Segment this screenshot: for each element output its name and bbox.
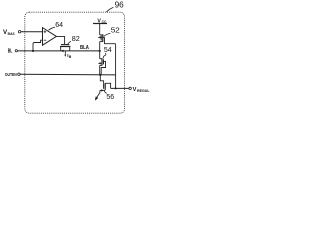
wire 54 source down to OUTEN node xyxy=(99,65,101,74)
wire BL (runs to transistor 82 and node BLA riser) xyxy=(18,50,100,52)
wire feedback to op-amp minus input xyxy=(33,40,42,51)
wire op-amp output to gate of 82 xyxy=(56,36,64,44)
terminal VREGUL xyxy=(129,87,150,93)
svg-text:BIAS: BIAS xyxy=(8,32,15,36)
power VCC xyxy=(93,18,107,24)
svg-text:V: V xyxy=(133,87,137,93)
transistor Q52 xyxy=(98,34,105,42)
wire 54 gate jog to OUTEN node xyxy=(101,61,105,74)
svg-text:B: B xyxy=(69,55,72,59)
label 56 xyxy=(104,91,114,101)
terminal BL xyxy=(8,48,18,54)
svg-text:REGUL: REGUL xyxy=(137,89,150,93)
wire VREGUL output xyxy=(111,87,129,89)
svg-text:BL: BL xyxy=(8,48,13,54)
dashed block boundary 96 xyxy=(25,12,125,113)
wire VBIAS to op-amp plus input xyxy=(21,31,43,33)
transistor Q54 xyxy=(98,58,104,65)
svg-text:64: 64 xyxy=(55,22,63,29)
terminal VBIAS xyxy=(3,29,21,36)
junction node BL / feedback xyxy=(32,50,34,52)
wire node BLA down to 54 xyxy=(99,51,101,59)
wire 52 source loop to right rail xyxy=(105,37,116,43)
svg-text:BLA: BLA xyxy=(80,45,90,51)
svg-text:OUTEN: OUTEN xyxy=(5,72,17,77)
junction node BLA xyxy=(99,50,101,52)
wire right rail down to output node xyxy=(115,44,117,89)
ground xyxy=(95,90,100,100)
junction node OUTEN xyxy=(99,74,101,76)
label 96 xyxy=(106,1,124,12)
label 64 xyxy=(48,22,63,30)
svg-text:56: 56 xyxy=(106,94,114,101)
svg-text:82: 82 xyxy=(72,34,80,43)
wire 56 gate jog xyxy=(100,75,103,84)
wire VCC down to 52 xyxy=(99,24,101,36)
transistor Q82 xyxy=(60,45,70,53)
current arrow IB xyxy=(64,51,66,57)
transistor Q56 xyxy=(100,83,111,92)
label 82 xyxy=(68,34,80,44)
wire OUTEN to right rail xyxy=(20,73,116,76)
op-amp U64 xyxy=(43,28,57,46)
label 54 xyxy=(103,47,112,58)
label IB xyxy=(67,53,72,59)
junction node output / right rail xyxy=(115,87,117,89)
terminal OUTEN xyxy=(5,72,20,77)
wire 52 drain down to node BLA xyxy=(99,42,101,51)
svg-text:96: 96 xyxy=(115,1,125,10)
label 52 xyxy=(104,27,120,36)
svg-text:54: 54 xyxy=(104,47,112,54)
svg-text:52: 52 xyxy=(111,27,120,34)
